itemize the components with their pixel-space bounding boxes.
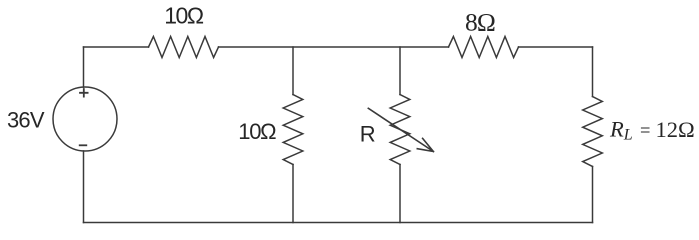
wire bottom xyxy=(84,222,593,224)
wire right vertical upper xyxy=(592,47,594,97)
wire left vertical lower xyxy=(83,151,85,223)
node A vertical wire lower xyxy=(292,165,294,223)
minus sign xyxy=(80,144,87,146)
svg-text:36V: 36V xyxy=(7,108,45,133)
resistor R2 10ohm vertical xyxy=(283,95,303,165)
svg-text:10Ω: 10Ω xyxy=(164,2,204,28)
node B vertical wire upper xyxy=(399,47,401,95)
node B vertical wire lower xyxy=(399,165,401,223)
wire right vertical lower xyxy=(592,167,594,223)
resistor R1 10ohm horizontal xyxy=(149,37,219,58)
resistor R3 8ohm horizontal xyxy=(449,37,519,58)
resistor RL 12ohm vertical xyxy=(583,97,603,167)
voltage source V1 36V xyxy=(53,87,117,151)
node A vertical wire upper xyxy=(292,47,294,95)
plus sign xyxy=(80,89,88,97)
svg-text:RL=12Ω: RL=12Ω xyxy=(609,116,695,143)
svg-text:8Ω: 8Ω xyxy=(465,8,495,37)
wire left vertical upper xyxy=(83,47,85,87)
wire top-right segment xyxy=(519,46,593,48)
rheostat arrow xyxy=(368,108,433,151)
wire top-left segment xyxy=(84,46,149,48)
rheostat R vertical zigzag xyxy=(390,95,410,165)
wire top-middle segment xyxy=(219,46,449,48)
svg-text:10Ω: 10Ω xyxy=(238,119,276,144)
svg-text:R: R xyxy=(360,122,376,147)
